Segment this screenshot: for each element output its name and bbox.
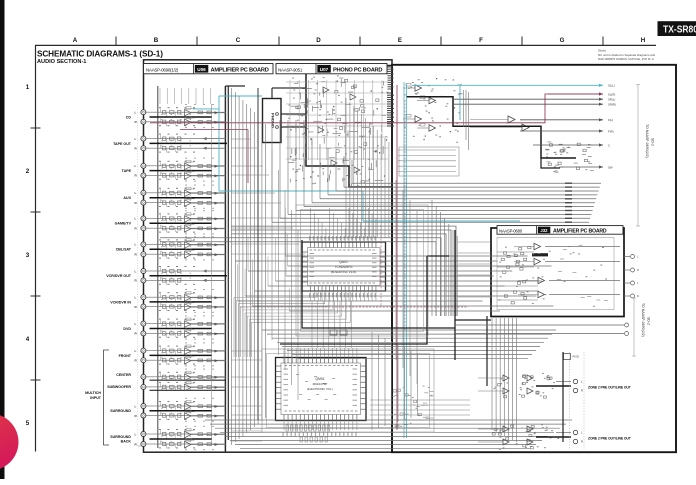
svg-text:SR(L): SR(L) <box>608 98 615 102</box>
cluster right of IC QM01 <box>416 405 420 407</box>
zone2 output jacks 1 <box>536 385 571 387</box>
svg-text:C: C <box>236 37 241 44</box>
J32 right exits <box>624 256 630 258</box>
svg-text:QA01: QA01 <box>339 260 348 264</box>
PK30 connector <box>564 354 571 360</box>
rotated text TO NAASP right upper <box>637 85 639 226</box>
magenta dashed lines <box>240 306 468 308</box>
header box NAASP-9051 U07 PHONO PC BOARD <box>276 64 387 74</box>
J32 amp components <box>534 243 541 250</box>
svg-text:GAME/TV: GAME/TV <box>115 222 132 226</box>
rows below J32 <box>455 324 624 326</box>
right edge arrow rows <box>460 84 603 86</box>
svg-text:4: 4 <box>26 336 30 343</box>
vertical bus x158 <box>157 86 159 448</box>
vertical bundle V5b <box>271 150 273 340</box>
svg-text:SD-2: SD-2 <box>647 317 651 325</box>
svg-text:D: D <box>316 37 321 44</box>
verticals IC1 to IC2 <box>311 301 313 348</box>
svg-text:SUBWOOFER: SUBWOOFER <box>107 385 131 389</box>
svg-text:E: E <box>398 37 402 44</box>
MULTICH INPUT bracket <box>104 350 110 445</box>
svg-text:M62447SP: M62447SP <box>313 382 328 386</box>
svg-text:SURROUND: SURROUND <box>110 435 131 439</box>
row feed wires crossing to right <box>231 138 251 140</box>
svg-text:R: R <box>637 294 639 298</box>
vertical bundle V2 zone feed <box>491 318 493 430</box>
svg-text:TAPE: TAPE <box>122 169 132 173</box>
wire band C <box>262 329 556 331</box>
zone2 amp cluster 2 <box>503 426 509 432</box>
mid component cluster <box>555 170 557 171</box>
top ruler line <box>35 44 656 46</box>
wire band D <box>205 419 572 421</box>
thick path around IC region <box>280 256 427 344</box>
amplifier PC board J32 outline <box>491 228 624 317</box>
left black edge strip <box>0 0 5 479</box>
svg-text:VCR/DVR IN: VCR/DVR IN <box>110 300 131 304</box>
svg-text:L: L <box>135 349 137 353</box>
svg-text:TX-SR80: TX-SR80 <box>663 25 696 36</box>
svg-text:U06: U06 <box>197 67 206 72</box>
svg-text:VCR/DVR OUT: VCR/DVR OUT <box>106 274 132 278</box>
svg-text:(BU9L08 KVF V315): (BU9L08 KVF V315) <box>331 270 357 274</box>
svg-text:(ELECTRONIC VOL.): (ELECTRONIC VOL.) <box>307 387 333 391</box>
mid amp pair <box>508 116 515 123</box>
top right amp cluster <box>415 85 422 92</box>
right main board outline <box>392 65 676 452</box>
svg-text:F: F <box>479 37 483 44</box>
svg-text:SCHEMATIC DIAGRAMS-1 (SD-1): SCHEMATIC DIAGRAMS-1 (SD-1) <box>37 50 163 59</box>
svg-text:B: B <box>154 37 159 44</box>
light vertical x211 <box>211 104 213 445</box>
svg-text:CENTER: CENTER <box>116 373 131 377</box>
svg-text:QM01: QM01 <box>315 377 324 381</box>
long maroon vertical x397 <box>396 85 398 430</box>
J32 left feed horizontals <box>458 241 491 243</box>
svg-text:INPUT: INPUT <box>90 396 102 400</box>
section outline around IC QA01 <box>296 205 428 336</box>
svg-text:NAASP-0680: NAASP-0680 <box>499 228 523 233</box>
svg-text:3: 3 <box>26 252 30 259</box>
connector pin block phono right mid <box>387 93 392 94</box>
cyan feed lines <box>193 108 219 110</box>
svg-text:L: L <box>135 269 137 273</box>
zone2 output jacks 2 <box>536 436 571 438</box>
svg-text:L: L <box>135 296 137 300</box>
svg-text:J32: J32 <box>540 228 548 233</box>
svg-text:L: L <box>135 164 137 168</box>
svg-text:ZONE 2 PRE OUT/LINE OUT: ZONE 2 PRE OUT/LINE OUT <box>588 437 632 441</box>
vertical thick bus pair x225/228 <box>224 86 226 452</box>
svg-text:BACK: BACK <box>121 440 132 444</box>
svg-text:SURROUND: SURROUND <box>110 409 131 413</box>
left ruler line <box>35 45 37 451</box>
svg-text:TC94A08FG: TC94A08FG <box>335 265 353 269</box>
two tiny boxes mid bottom <box>330 330 337 335</box>
svg-text:L: L <box>135 111 137 115</box>
thick path left column <box>257 88 259 420</box>
vertical bundle V5 left-mid long <box>231 88 233 445</box>
thick vertical x455 <box>454 230 456 360</box>
svg-text:U07: U07 <box>320 67 329 72</box>
svg-text:AUDIO SECTION-1: AUDIO SECTION-1 <box>37 59 86 65</box>
svg-text:G: G <box>560 37 565 44</box>
svg-text:(Note): (Note) <box>598 49 606 53</box>
IC QA01 TC94A08FG <box>302 242 386 291</box>
svg-text:R: R <box>581 440 583 444</box>
vertical bundle right of IC QM01 <box>371 332 373 430</box>
svg-text:L: L <box>135 217 137 221</box>
input connector column dotted boundary <box>137 104 139 446</box>
svg-text:SL(R): SL(R) <box>608 92 615 96</box>
svg-text:PHONO: PHONO <box>271 113 276 128</box>
stubs above CD row <box>159 88 161 104</box>
thick zone feed x487 <box>486 316 488 386</box>
svg-text:AUX: AUX <box>123 196 131 200</box>
amplifier PC board U06 outline <box>144 60 393 452</box>
thick zone wire <box>562 352 564 442</box>
long cyan verticals x404 <box>403 82 405 438</box>
svg-text:PHONO PC BOARD: PHONO PC BOARD <box>333 68 382 74</box>
svg-text:SD-2: SD-2 <box>651 138 655 146</box>
svg-text:PK30: PK30 <box>573 355 580 359</box>
top ruler ticks <box>115 37 117 46</box>
vertical bundle V4 phono to IC <box>345 98 347 238</box>
zone2 amp cluster 1 <box>503 375 509 381</box>
svg-text:L: L <box>135 243 137 247</box>
svg-text:AMPLIFIER PC BOARD: AMPLIFIER PC BOARD <box>211 68 269 74</box>
IC QM01 <box>276 358 367 421</box>
band A left stair verticals <box>351 160 353 183</box>
thick path x302 down <box>302 240 455 328</box>
header box NAASP-0680 J32 AMPLIFIER PC BOARD <box>497 226 623 235</box>
svg-text:R: R <box>637 268 639 272</box>
FRONT bracket tick <box>138 445 142 447</box>
svg-text:L: L <box>135 322 137 326</box>
gray verticals x463-469 <box>463 90 465 127</box>
zone connector column dotted <box>569 352 571 450</box>
svg-text:1: 1 <box>26 84 30 91</box>
svg-text:SR(R): SR(R) <box>608 103 616 107</box>
section outline inside J32 <box>497 238 614 310</box>
svg-text:L: L <box>135 404 137 408</box>
svg-text:DVD: DVD <box>123 327 131 331</box>
connector pin block phono right top <box>388 67 393 68</box>
wire band A <box>352 182 601 184</box>
svg-text:L: L <box>135 191 137 195</box>
phono PC board U07 outline <box>306 66 392 188</box>
svg-text:CBL/SAT: CBL/SAT <box>116 248 132 252</box>
svg-text:ZONE 2 PRE OUT/LINE OUT: ZONE 2 PRE OUT/LINE OUT <box>588 386 632 390</box>
svg-text:NAASP-9051: NAASP-9051 <box>278 67 303 72</box>
svg-text:L: L <box>135 137 137 141</box>
long verticals right of IC1 <box>395 180 397 360</box>
PHONO input block <box>263 99 282 143</box>
svg-text:A: A <box>73 37 78 44</box>
svg-text:F(R): F(R) <box>608 129 614 133</box>
svg-text:AMPLIFIER PC BOARD: AMPLIFIER PC BOARD <box>553 229 607 235</box>
svg-text:TO NAASP-0690(2/2): TO NAASP-0690(2/2) <box>645 124 649 158</box>
section outline around IC QM01 <box>262 349 434 432</box>
svg-text:R: R <box>581 389 583 393</box>
svg-text:CD: CD <box>126 115 132 119</box>
small resistor rows under IC2 <box>286 425 288 431</box>
thick signal path mid <box>406 97 576 158</box>
svg-text:SW: SW <box>608 165 613 169</box>
svg-text:2: 2 <box>26 168 30 175</box>
rotated text TO NAASP right lower <box>633 298 635 356</box>
svg-text:NAP-0080PS SIGBUS, RxPCCE, PxP: NAP-0080PS SIGBUS, RxPCCE, PxP St. A <box>598 57 654 61</box>
wire band B <box>285 255 527 257</box>
header box NAASP-0690(1/2) U06 AMPLIFIER PC BOARD <box>144 64 274 74</box>
svg-text:C: C <box>608 143 610 147</box>
maroon feed lines <box>150 94 603 123</box>
svg-text:TAPE OUT: TAPE OUT <box>113 142 132 146</box>
bottom feed wires multich <box>231 350 262 352</box>
svg-text:L: L <box>135 432 137 436</box>
svg-text:NAASP-0690(1/2): NAASP-0690(1/2) <box>146 67 179 72</box>
svg-text:H: H <box>641 37 646 44</box>
svg-text:TO NAASP-0690(2/2): TO NAASP-0690(2/2) <box>641 303 645 337</box>
phono block wires <box>281 113 306 115</box>
svg-text:MULTICH: MULTICH <box>85 391 101 395</box>
phono circuit components <box>323 87 329 93</box>
left ruler ticks <box>31 127 41 129</box>
svg-text:5: 5 <box>26 420 30 427</box>
svg-text:SL(L): SL(L) <box>608 84 615 88</box>
fan-out below IC QA01 <box>234 291 316 357</box>
svg-text:FRONT: FRONT <box>119 354 132 358</box>
vertical bundle V1 into J32 <box>431 200 433 316</box>
TX-SR model tab top right <box>658 21 696 36</box>
svg-text:F(L): F(L) <box>608 118 613 122</box>
